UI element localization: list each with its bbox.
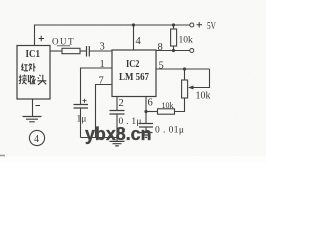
svg-text:IC1: IC1 xyxy=(26,48,41,60)
svg-text:7: 7 xyxy=(99,76,104,87)
op IC2 LM567 body xyxy=(112,50,156,97)
wire pin6 to timing resistor xyxy=(146,111,158,113)
label LM 567 xyxy=(119,72,149,83)
svg-text:10k: 10k xyxy=(162,101,174,110)
pin 5 label xyxy=(159,61,164,72)
svg-text:10k: 10k xyxy=(179,35,194,45)
capacitor C 0.01u xyxy=(139,124,153,128)
label 1u xyxy=(77,115,87,125)
wire top +5V rail xyxy=(35,24,191,26)
svg-text:ybx8.cn: ybx8.cn xyxy=(85,124,152,144)
label 0.1u xyxy=(119,117,142,127)
svg-text:5V: 5V xyxy=(207,20,216,32)
label +5V xyxy=(197,20,217,32)
pin 3 label xyxy=(100,42,105,53)
label 10k timing xyxy=(162,101,174,110)
scan mark bottom left xyxy=(0,155,5,157)
IC1 infrared receiver module xyxy=(17,46,50,100)
svg-text:10k: 10k xyxy=(196,90,211,101)
svg-text:OUT: OUT xyxy=(52,37,75,47)
wire pin 2 lead xyxy=(116,97,118,111)
ground (IC1) xyxy=(23,117,42,122)
svg-text:4: 4 xyxy=(34,134,39,145)
wire ground link xyxy=(81,137,117,139)
ground (main) xyxy=(110,141,125,146)
junction rail/pullup xyxy=(172,23,175,26)
svg-text:5: 5 xyxy=(159,61,164,72)
label - (IC1 minus) xyxy=(36,105,41,107)
svg-text:LM 567: LM 567 xyxy=(119,72,149,83)
wire pullup bottom lead xyxy=(173,46,175,51)
junction pullup/pin8 xyxy=(172,49,175,52)
wire pin 8 line xyxy=(156,50,190,52)
capacitor C 1u polarized xyxy=(74,99,89,108)
capacitor C 0.1u xyxy=(110,111,125,115)
wire 0.01u to ground xyxy=(145,127,147,133)
potentiometer RP 10k xyxy=(182,80,188,98)
resistor (series output) xyxy=(62,48,80,53)
scan noise overlay xyxy=(0,0,1,1)
label 10k pullup xyxy=(179,35,194,45)
wire pin 7 to ground link xyxy=(96,85,113,138)
terminal output pin8 xyxy=(190,49,194,53)
pin 2 label xyxy=(119,98,124,109)
wire pot bottom lead xyxy=(175,98,185,112)
wire pin 1 to filter cap xyxy=(81,68,113,104)
wire pin 4 to rail xyxy=(133,25,135,50)
label IC1 xyxy=(26,48,41,60)
ground (timing cap) xyxy=(140,133,153,138)
pin 4 label xyxy=(136,36,142,47)
label 0.01u xyxy=(155,125,184,135)
label 接收头 (receiver head) xyxy=(19,75,47,85)
junction pin6 xyxy=(144,110,147,113)
svg-text:2: 2 xyxy=(119,98,124,109)
junction pin5/pot xyxy=(183,67,186,70)
svg-text:1: 1 xyxy=(100,59,105,70)
wire pin6 down to timing cap xyxy=(145,112,147,124)
junction pin4/rail xyxy=(132,23,135,26)
label 10k pot xyxy=(196,90,211,101)
watermark ybx8.cn xyxy=(85,124,152,144)
pin 8 label xyxy=(158,42,163,53)
label 红外 (infrared) xyxy=(21,63,35,71)
resistor R timing 10k xyxy=(158,109,175,114)
wire IC1 plus lead xyxy=(34,25,36,46)
label OUT xyxy=(52,37,75,47)
svg-text:3: 3 xyxy=(100,42,105,53)
wire pin 6 lead xyxy=(145,97,147,112)
capacitor coupling (input) xyxy=(87,46,90,57)
label IC2 xyxy=(126,58,140,70)
svg-text:8: 8 xyxy=(158,42,163,53)
svg-text:6: 6 xyxy=(148,98,153,109)
wire cap to pin 3 xyxy=(90,50,113,52)
pin 6 label xyxy=(148,98,153,109)
figure number circle 4 xyxy=(29,130,44,145)
wire 0.1u to ground xyxy=(116,114,118,142)
wire pot top lead xyxy=(184,69,186,80)
label + (IC1 supply) xyxy=(39,36,45,41)
wire IC1 minus lead xyxy=(32,99,34,117)
terminal +5V top xyxy=(190,23,194,27)
pin 1 label xyxy=(100,59,105,70)
wire IC1 OUT to resistor xyxy=(50,50,62,52)
wiper feedback loop wire xyxy=(192,69,210,88)
wire resistor to coupling cap xyxy=(80,50,86,52)
wire pin 5 line xyxy=(156,68,210,70)
svg-text:0 . 01μ: 0 . 01μ xyxy=(155,125,184,135)
resistor R pullup 10k xyxy=(171,29,177,46)
pin 7 label xyxy=(99,76,104,87)
wire 1u cap to ground link xyxy=(80,108,82,138)
svg-text:IC2: IC2 xyxy=(126,58,140,70)
wiper arrowhead xyxy=(188,86,194,90)
wire pullup top lead xyxy=(173,25,175,29)
svg-text:4: 4 xyxy=(136,36,142,47)
svg-text:1μ: 1μ xyxy=(77,115,87,125)
